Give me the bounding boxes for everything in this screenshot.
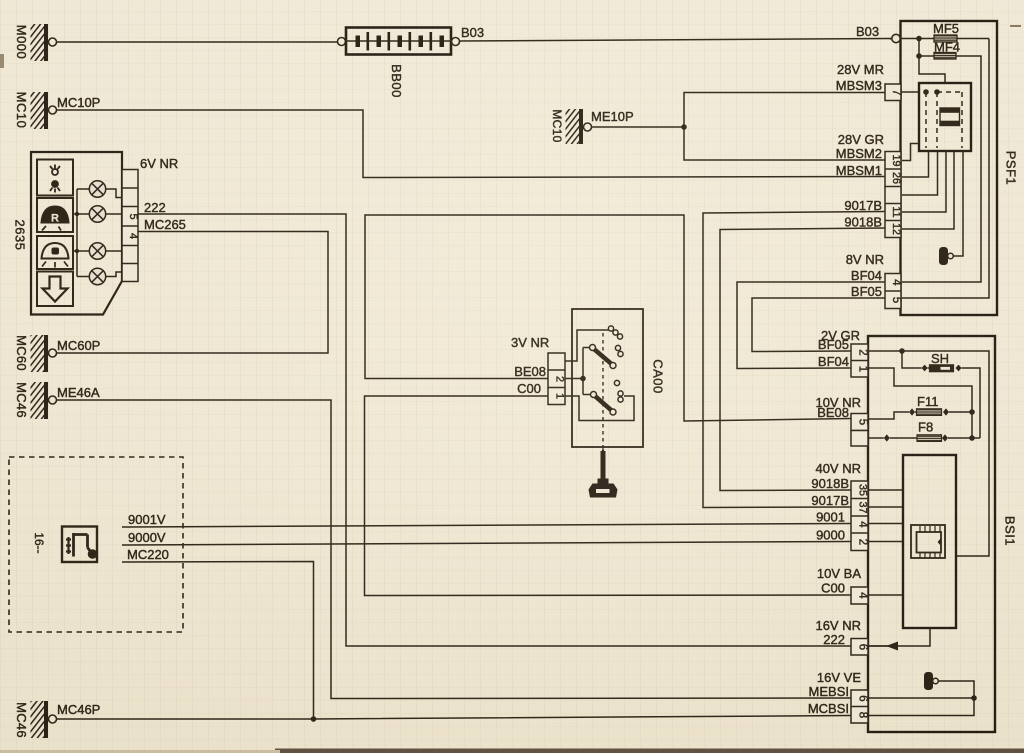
BSI1 pin 5 + spare: [851, 414, 868, 447]
svg-text:BF05: BF05: [818, 337, 849, 352]
svg-text:4: 4: [127, 233, 139, 239]
svg-text:5: 5: [890, 297, 902, 303]
svg-text:26: 26: [890, 172, 902, 184]
wire spare riser: [902, 151, 938, 195]
CA00 internal wiring: [565, 330, 609, 361]
wire B03 internal: [901, 38, 990, 40]
svg-text:MC10P: MC10P: [57, 95, 100, 110]
wire pin12 riser: [902, 151, 954, 229]
wire 222 internal with arrow: [897, 628, 930, 646]
wire C00: [365, 396, 852, 596]
wire M000 to BB00: [57, 41, 339, 43]
CPU box in BSI1: [903, 455, 956, 628]
svg-text:1: 1: [554, 393, 566, 399]
svg-text:B03: B03: [856, 24, 879, 39]
svg-text:12: 12: [890, 223, 902, 235]
icon: down arrow: [37, 272, 73, 307]
svg-text:2: 2: [554, 376, 566, 382]
wire MF4 to pin 4: [902, 56, 981, 282]
ground M000: [14, 24, 57, 61]
icon: lamp D (dipped beam): [37, 236, 73, 269]
wire BF04 internal: [868, 368, 972, 438]
svg-text:B03: B03: [461, 25, 484, 40]
ignition key: [589, 448, 618, 498]
svg-text:6V NR: 6V NR: [140, 156, 178, 171]
ground MC10 (middle, ME10P): [550, 109, 592, 144]
svg-text:11: 11: [890, 206, 902, 217]
wire BE08: [365, 215, 851, 421]
wire MBSM3: [684, 93, 885, 128]
wire to right rail: [902, 351, 989, 556]
scan mark left edge: [0, 54, 4, 68]
junction MC220/MC46P: [311, 716, 317, 722]
svg-text:MF5: MF5: [933, 21, 959, 36]
svg-text:MEBSI: MEBSI: [809, 684, 849, 699]
wire MC60P / MC265: [57, 232, 329, 354]
box PSF1: [901, 21, 998, 315]
microprocessor icon: [911, 525, 945, 558]
relay IC symbol: [940, 108, 960, 126]
BSI1 pins 6/8: [851, 690, 868, 723]
wire pin19 riser: [902, 144, 919, 161]
svg-text:9017B: 9017B: [811, 493, 849, 508]
svg-text:28V GR: 28V GR: [838, 132, 884, 147]
wire 9000: [122, 542, 851, 546]
wire MEBSI/MCBSI internal: [868, 681, 974, 716]
CA00 pins: [548, 353, 565, 405]
svg-text:4: 4: [890, 279, 902, 286]
diagnostic socket icon: [62, 527, 97, 563]
svg-text:222: 222: [823, 632, 845, 647]
svg-text:BF04: BF04: [818, 354, 849, 369]
svg-text:ME10P: ME10P: [591, 109, 634, 124]
lamp L3: [77, 243, 122, 259]
lamp L1: [77, 181, 122, 198]
svg-text:9000V: 9000V: [128, 530, 166, 545]
icon: lamp R (sidelights): [37, 198, 73, 232]
svg-text:F11: F11: [917, 394, 938, 409]
svg-text:9001V: 9001V: [128, 512, 166, 527]
contact circles: [608, 326, 623, 402]
svg-text:MC220: MC220: [127, 547, 169, 562]
wire 9018B: [720, 228, 885, 491]
svg-text:R: R: [51, 213, 59, 225]
switch CA00 box: [572, 309, 643, 447]
wire 9017B: [703, 212, 885, 508]
svg-text:16V VE: 16V VE: [817, 670, 861, 685]
svg-text:C00: C00: [517, 381, 541, 396]
icon: interior lamps: [37, 160, 73, 196]
svg-text:4: 4: [857, 592, 869, 599]
BSI1 pin 4: [851, 587, 868, 604]
scan mark top right: [1010, 25, 1021, 27]
svg-text:6: 6: [857, 644, 869, 650]
wire BF05: [752, 298, 885, 352]
wire B03 to PSF1: [460, 39, 892, 42]
wire pin1 contact: [565, 396, 634, 421]
junction ME10P: [681, 124, 687, 130]
svg-text:MC46: MC46: [14, 382, 29, 418]
wire MF4 branch: [919, 39, 934, 57]
svg-text:MC60: MC60: [14, 335, 29, 371]
svg-text:C00: C00: [821, 581, 845, 596]
svg-text:6: 6: [857, 695, 869, 701]
svg-text:8: 8: [857, 712, 869, 718]
svg-text:1: 1: [857, 366, 869, 372]
svg-text:40V NR: 40V NR: [815, 461, 861, 476]
ground MC46: [14, 382, 57, 419]
svg-text:16--: 16--: [32, 532, 46, 553]
svg-text:8V NR: 8V NR: [846, 252, 884, 267]
svg-text:M000: M000: [14, 25, 29, 60]
node B03 terminal: [892, 34, 900, 42]
key barrel dashed axis: [602, 333, 604, 452]
svg-text:35: 35: [857, 484, 869, 496]
svg-text:MC60P: MC60P: [57, 338, 100, 353]
svg-text:MC46P: MC46P: [57, 702, 100, 717]
diode D1 in PSF1: [939, 247, 948, 265]
wire ME46A / MEBSI: [57, 400, 852, 699]
svg-text:MC10: MC10: [14, 92, 29, 129]
wire BF04: [737, 282, 885, 369]
switch blade upper: [590, 345, 596, 351]
svg-text:BB00: BB00: [389, 64, 404, 98]
wire BF05 internal: [868, 350, 902, 352]
wire MBSM2: [684, 127, 885, 160]
PSF1 pins 19/26/-/11/12: [885, 152, 901, 238]
svg-text:9018B: 9018B: [844, 215, 882, 230]
svg-text:37: 37: [857, 501, 869, 513]
connector 2635 pins: [122, 170, 138, 282]
svg-text:222: 222: [144, 200, 166, 215]
wire pin11 riser: [902, 151, 946, 212]
BSI1 pin 6: [851, 639, 868, 656]
svg-text:9017B: 9017B: [844, 198, 882, 213]
svg-text:9000: 9000: [816, 528, 845, 543]
connector 2635 outline: [31, 152, 122, 315]
svg-text:CA00: CA00: [651, 359, 666, 394]
svg-text:9018B: 9018B: [811, 476, 849, 491]
PSF1 pins 4/5: [885, 274, 901, 309]
wire SH to F8 rail: [962, 368, 981, 438]
wire pin7 internal: [902, 91, 919, 93]
wire to relay coil: [919, 56, 945, 83]
svg-text:MBSM1: MBSM1: [836, 163, 882, 178]
wire 222: [138, 214, 897, 646]
svg-text:MC265: MC265: [144, 217, 186, 232]
ground MC46 (bottom): [14, 701, 57, 738]
svg-text:SH: SH: [931, 351, 949, 366]
svg-text:3V NR: 3V NR: [511, 335, 549, 350]
battery BB00: [338, 28, 460, 98]
scan edge bottom: [275, 749, 1024, 753]
wires pins to CPU: [868, 489, 903, 491]
diagnostic connector dashed box 16: [9, 457, 183, 632]
svg-text:BSI1: BSI1: [1003, 516, 1018, 546]
svg-text:MBSM3: MBSM3: [836, 78, 882, 93]
svg-text:28V MR: 28V MR: [837, 62, 884, 77]
node: lamp bus: [76, 189, 78, 277]
wire ME10P: [592, 126, 685, 128]
wire MC220: [122, 562, 314, 720]
ground MC10: [14, 92, 57, 129]
wire MC46P / MCBSI: [57, 716, 852, 720]
svg-text:MCBSI: MCBSI: [808, 701, 849, 716]
svg-text:5: 5: [127, 213, 139, 219]
svg-text:19: 19: [890, 154, 902, 166]
svg-text:ME46A: ME46A: [57, 385, 100, 400]
BSI1 pins 2/1: [851, 344, 868, 377]
svg-text:2: 2: [857, 539, 869, 545]
lamp L4: [77, 268, 122, 284]
wire BE08 internal: [868, 412, 909, 419]
svg-text:PSF1: PSF1: [1004, 151, 1019, 186]
svg-text:5: 5: [857, 419, 869, 425]
wire to shunt: [902, 351, 922, 368]
svg-text:10V BA: 10V BA: [817, 566, 861, 581]
svg-text:MBSM2: MBSM2: [836, 146, 882, 161]
svg-text:BF04: BF04: [851, 268, 882, 283]
lamp L2: [77, 206, 122, 222]
svg-text:2: 2: [857, 349, 869, 355]
wire MF5 to pin 5: [902, 39, 989, 299]
svg-text:4: 4: [857, 521, 869, 528]
svg-text:BF05: BF05: [851, 284, 882, 299]
svg-text:BE08: BE08: [817, 405, 849, 420]
svg-text:F8: F8: [918, 420, 933, 435]
wire pin26 riser: [902, 151, 929, 177]
ground MC60: [14, 335, 57, 372]
svg-text:MC46: MC46: [14, 702, 29, 738]
switch blade lower: [591, 392, 597, 398]
svg-text:MC10: MC10: [550, 109, 564, 142]
wire F8 to spare pin: [868, 437, 884, 439]
wire 9001: [122, 524, 851, 528]
wire MC10P / MBSM1: [57, 110, 886, 178]
PSF1 pin 7: [885, 84, 902, 101]
box BSI1: [868, 336, 995, 732]
svg-text:16V NR: 16V NR: [815, 618, 861, 633]
svg-text:7: 7: [890, 89, 902, 95]
svg-text:2635: 2635: [13, 220, 28, 251]
svg-text:9001: 9001: [816, 510, 845, 525]
relay U1 in PSF1: [919, 83, 971, 151]
BSI1 pins 35/37/4/2: [851, 481, 868, 551]
svg-text:BE08: BE08: [514, 364, 546, 379]
electronic unit symbol: [924, 672, 933, 690]
